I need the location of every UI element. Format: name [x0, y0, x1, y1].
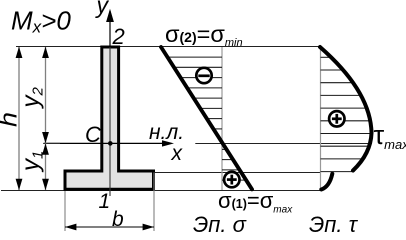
plus sign in circle (sigma) — [224, 172, 239, 187]
section centerline — [109, 47, 111, 196]
svg-text:Эп. σ: Эп. σ — [193, 212, 247, 234]
b extension line right — [153, 173, 155, 232]
sigma diagram sloping line — [161, 47, 252, 189]
y axis — [109, 11, 111, 47]
minus sign in circle — [196, 68, 211, 83]
y1 dimension line — [45, 143, 47, 190]
neutral level line — [195, 143, 372, 145]
svg-text:Mx>0: Mx>0 — [11, 6, 71, 37]
flange junction level line — [155, 172, 321, 174]
tau diagram baseline — [320, 47, 322, 191]
tau web curve — [320, 47, 372, 171]
svg-text:2: 2 — [112, 24, 125, 49]
top fiber level line — [16, 46, 319, 48]
y2 dimension line — [45, 47, 47, 143]
T-section cross-section — [65, 47, 154, 189]
tau flange curve — [321, 174, 332, 190]
svg-text:y: y — [95, 0, 110, 18]
svg-text:Эп. τ: Эп. τ — [309, 212, 359, 234]
tau diagram hatch — [321, 57, 372, 171]
svg-text:н.л.: н.л. — [149, 121, 184, 144]
svg-text:1: 1 — [99, 190, 111, 213]
b dimension line — [65, 226, 154, 228]
sigma diagram hatch (compression zone) — [168, 57, 223, 139]
b extension line left — [64, 191, 66, 231]
svg-text:h: h — [0, 112, 23, 127]
sigma diagram baseline — [221, 47, 223, 190]
centroid dot — [108, 141, 113, 146]
neutral level tick — [43, 142, 60, 144]
svg-text:b: b — [112, 208, 124, 231]
sigma diagram hatch (tension zone) — [222, 149, 246, 180]
svg-text:C: C — [85, 122, 101, 147]
plus sign in circle (tau) — [329, 111, 344, 126]
bottom fiber level line — [1, 190, 321, 192]
x axis (neutral line) — [44, 142, 168, 144]
h dimension line — [18, 47, 20, 190]
svg-text:x: x — [171, 142, 184, 165]
